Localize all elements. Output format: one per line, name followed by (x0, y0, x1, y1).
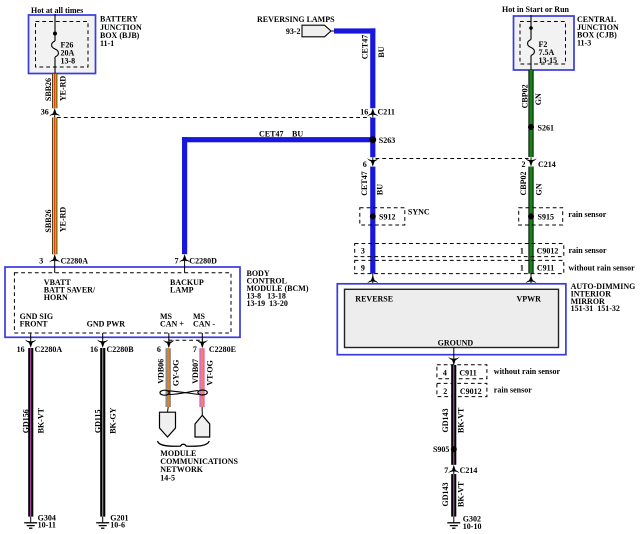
svg-text:GROUND: GROUND (438, 339, 474, 348)
svg-text:1: 1 (520, 264, 524, 273)
svg-text:GN: GN (535, 183, 544, 195)
svg-text:C911: C911 (459, 368, 476, 377)
svg-text:CBP02: CBP02 (519, 172, 528, 196)
svg-text:VDB06: VDB06 (156, 359, 165, 384)
svg-text:rain sensor: rain sensor (494, 386, 532, 395)
svg-text:SYNC: SYNC (408, 208, 430, 217)
svg-text:151-31 151-32: 151-31 151-32 (571, 304, 620, 313)
svg-text:C9012: C9012 (460, 387, 482, 396)
svg-text:GN: GN (534, 93, 543, 105)
svg-text:1: 1 (520, 247, 524, 256)
svg-text:13-19 13-20: 13-19 13-20 (247, 299, 288, 308)
svg-text:7: 7 (193, 345, 197, 354)
svg-text:rain sensor: rain sensor (568, 210, 606, 219)
svg-text:VPWR: VPWR (517, 294, 542, 303)
svg-text:13-15: 13-15 (539, 56, 558, 65)
svg-text:36: 36 (41, 108, 49, 117)
svg-text:C2280A: C2280A (35, 345, 63, 354)
svg-text:16: 16 (17, 345, 25, 354)
svg-text:C2280B: C2280B (107, 345, 135, 354)
svg-text:2: 2 (522, 160, 526, 169)
svg-text:without rain sensor: without rain sensor (494, 367, 561, 376)
svg-text:C2280E: C2280E (209, 345, 236, 354)
svg-text:10-6: 10-6 (110, 521, 125, 530)
svg-text:4: 4 (443, 368, 447, 377)
svg-text:SBB26: SBB26 (44, 78, 53, 101)
svg-text:C9012: C9012 (537, 247, 559, 256)
svg-text:without rain sensor: without rain sensor (569, 264, 636, 273)
svg-text:9: 9 (361, 264, 365, 273)
svg-text:VDB07: VDB07 (191, 359, 200, 384)
svg-text:YE-RD: YE-RD (58, 207, 67, 233)
svg-text:BU: BU (377, 46, 386, 57)
svg-text:S912: S912 (379, 212, 395, 221)
svg-text:S915: S915 (538, 212, 554, 221)
svg-text:16: 16 (360, 108, 368, 117)
svg-text:REVERSE: REVERSE (355, 294, 393, 303)
svg-text:11-3: 11-3 (577, 38, 591, 47)
svg-text:S905: S905 (433, 445, 449, 454)
svg-text:C211: C211 (378, 108, 395, 117)
svg-text:BK-GY: BK-GY (108, 407, 117, 433)
svg-text:GD143: GD143 (441, 409, 450, 433)
svg-text:3: 3 (361, 247, 365, 256)
svg-text:10-10: 10-10 (463, 522, 482, 531)
svg-text:BK-VT: BK-VT (36, 407, 45, 433)
svg-text:GD115: GD115 (93, 410, 102, 434)
svg-text:BU: BU (375, 184, 384, 195)
svg-text:CAN +: CAN + (160, 319, 184, 328)
svg-text:C2280D: C2280D (189, 256, 217, 265)
svg-text:CET47: CET47 (360, 35, 369, 59)
svg-text:S261: S261 (538, 123, 554, 132)
svg-text:CAN -: CAN - (193, 319, 215, 328)
svg-text:CET47: CET47 (360, 171, 369, 195)
svg-text:6: 6 (363, 160, 367, 169)
svg-text:GD143: GD143 (441, 483, 450, 507)
svg-text:C214: C214 (538, 160, 556, 169)
svg-text:GND PWR: GND PWR (87, 319, 126, 328)
svg-text:YE-RD: YE-RD (58, 76, 67, 102)
svg-text:10-11: 10-11 (38, 521, 56, 530)
svg-text:BK-VT: BK-VT (456, 407, 465, 433)
svg-text:SBB26: SBB26 (44, 209, 53, 232)
svg-text:C911: C911 (537, 264, 554, 273)
svg-text:GD156: GD156 (21, 409, 30, 433)
svg-text:S263: S263 (379, 136, 395, 145)
svg-text:2: 2 (443, 387, 447, 396)
svg-text:7: 7 (175, 256, 179, 265)
svg-text:3: 3 (39, 256, 43, 265)
svg-text:Hot in Start or Run: Hot in Start or Run (502, 5, 570, 14)
svg-text:GY-OG: GY-OG (171, 360, 180, 386)
svg-text:HORN: HORN (44, 293, 68, 302)
svg-text:rain sensor: rain sensor (569, 246, 607, 255)
svg-text:C214: C214 (460, 466, 478, 475)
svg-text:FRONT: FRONT (20, 319, 49, 328)
svg-text:C2280A: C2280A (61, 256, 89, 265)
svg-text:11-1: 11-1 (100, 39, 114, 48)
svg-text:6: 6 (157, 345, 161, 354)
svg-text:93-2: 93-2 (286, 27, 301, 36)
svg-text:16: 16 (90, 345, 98, 354)
svg-text:7: 7 (444, 466, 448, 475)
svg-text:REVERSING LAMPS: REVERSING LAMPS (257, 15, 335, 24)
svg-text:13-8: 13-8 (61, 56, 76, 65)
svg-text:CBP02: CBP02 (520, 84, 529, 108)
svg-text:BK-VT: BK-VT (456, 481, 465, 507)
svg-text:VT-OG: VT-OG (205, 360, 214, 386)
svg-text:14-5: 14-5 (160, 473, 175, 482)
svg-text:LAMP: LAMP (170, 285, 194, 294)
svg-text:Hot at all times: Hot at all times (31, 6, 83, 15)
